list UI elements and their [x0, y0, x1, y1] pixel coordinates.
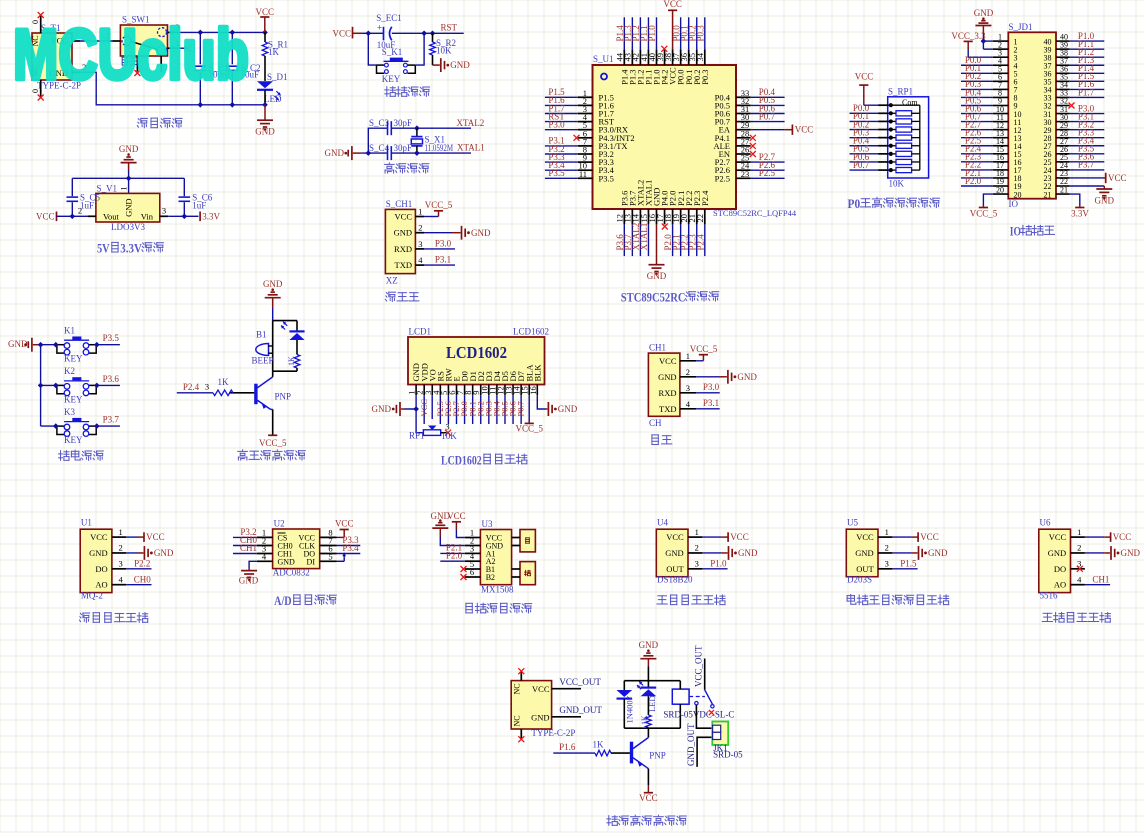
wire P3.1	[696, 408, 719, 410]
svg-text:GND_OUT: GND_OUT	[559, 705, 602, 715]
svg-text:U3: U3	[482, 519, 493, 529]
relay coil JK1	[672, 689, 689, 704]
wire P1.6	[553, 752, 595, 754]
svg-text:NC: NC	[513, 715, 522, 726]
title 串口	[652, 434, 658, 436]
svg-text:P1.5: P1.5	[900, 558, 917, 568]
svg-text:P2.0: P2.0	[965, 176, 982, 186]
wire DI join DO	[337, 560, 345, 562]
svg-text:K3: K3	[64, 407, 75, 417]
wire P0.1	[850, 120, 879, 122]
wire top rail	[72, 177, 184, 179]
title 声光报警电路	[242, 450, 244, 451]
wire P3.4	[545, 169, 578, 171]
wire P0.7	[961, 121, 993, 123]
svg-text:5516: 5516	[1040, 590, 1059, 600]
ground GND	[433, 64, 440, 66]
wire P3.2	[1070, 129, 1105, 131]
pin CH1.4	[415, 264, 424, 266]
svg-text:GND: GND	[928, 548, 948, 558]
wire P2.5	[961, 145, 993, 147]
svg-text:30pF: 30pF	[394, 143, 413, 153]
svg-text:P2.4: P2.4	[183, 382, 200, 392]
no-connect pin6	[461, 574, 467, 580]
svg-text:P2.4: P2.4	[700, 190, 710, 206]
svg-text:P3.7: P3.7	[103, 415, 120, 425]
svg-text:VCC: VCC	[663, 0, 682, 9]
capacitor S_C5 1uF	[71, 178, 73, 196]
svg-text:3: 3	[162, 206, 166, 216]
svg-text:P2.2: P2.2	[134, 558, 150, 568]
wire P1.4	[1070, 72, 1105, 74]
wire P0.2	[480, 395, 482, 424]
pin CH1.2	[680, 376, 696, 378]
capacitor S_C1 100nF	[199, 32, 201, 64]
title 复位电路	[386, 87, 388, 97]
svg-text:NC: NC	[513, 683, 522, 694]
wire P3.6	[1070, 161, 1105, 163]
wire GND net to bottom rail	[80, 72, 265, 105]
svg-text:5V: 5V	[97, 242, 110, 256]
switch S_SW1	[120, 25, 167, 56]
svg-text:AO: AO	[95, 580, 107, 590]
transistor Q2 PNP	[647, 728, 649, 737]
svg-text:VCC_3.3: VCC_3.3	[951, 31, 986, 41]
svg-text:VCC: VCC	[395, 212, 413, 222]
svg-text:2: 2	[1077, 543, 1081, 553]
wire P1.5	[1070, 80, 1105, 82]
wire P1.1	[1070, 48, 1105, 50]
wire P0.7	[520, 395, 522, 424]
wire EA to VCC	[751, 129, 785, 131]
wire P2.4	[177, 392, 213, 394]
wire P2.6	[751, 169, 785, 171]
connector JK1 SRD-05	[712, 722, 728, 746]
pin T1.2 GND	[72, 71, 80, 73]
svg-text:PNP: PNP	[649, 750, 666, 760]
svg-text:TXD: TXD	[659, 404, 676, 414]
svg-text:TYPE-C-2P: TYPE-C-2P	[531, 728, 575, 738]
wire P3.4	[337, 553, 361, 555]
diode D3 1N4007	[623, 681, 625, 690]
wire P2.7	[961, 129, 993, 131]
svg-text:VCC: VCC	[795, 125, 814, 135]
wire P3.3	[1070, 137, 1105, 139]
wire P3.1	[1070, 121, 1105, 123]
svg-text:VCC_OUT: VCC_OUT	[694, 645, 704, 687]
wire P0.6	[850, 161, 879, 163]
svg-text:10K: 10K	[889, 178, 905, 188]
wire P3.4	[1070, 145, 1105, 147]
no-connect	[750, 143, 756, 149]
wire	[368, 128, 387, 153]
wire XTAL1	[392, 152, 471, 154]
svg-text:VCC: VCC	[920, 532, 939, 542]
resistor element 2	[888, 120, 896, 122]
wire P0.0	[464, 395, 466, 424]
svg-text:ADC0832: ADC0832	[273, 568, 310, 578]
svg-text:3: 3	[885, 559, 889, 569]
pin RP1.6	[878, 145, 888, 147]
motor connector B	[520, 562, 535, 585]
wire P3.6	[96, 384, 120, 386]
wire P2.6	[447, 395, 449, 424]
svg-text:DI: DI	[307, 557, 316, 566]
power 3.3V pin21	[1070, 194, 1080, 205]
svg-text:11.0592M: 11.0592M	[425, 143, 454, 153]
svg-text:3: 3	[418, 239, 422, 249]
wire P3.3	[545, 161, 578, 163]
IC S_U1 STC89C52RC_LQFP44	[593, 65, 737, 209]
wire P0.0	[680, 17, 682, 49]
wire key right branch	[415, 33, 424, 65]
power VCC_5 / BLA	[528, 395, 530, 421]
wire P0.7	[751, 121, 785, 123]
svg-text:4: 4	[1077, 574, 1082, 584]
relay switch	[705, 690, 713, 705]
junction	[365, 30, 371, 36]
wire	[362, 32, 383, 34]
connector S_T1 TYPE-C-2P	[32, 33, 72, 80]
ground GND	[892, 552, 911, 554]
svg-text:DO: DO	[95, 564, 107, 574]
wire P1.3	[1070, 64, 1105, 66]
wire P2.6	[961, 137, 993, 139]
svg-text:1K: 1K	[287, 356, 296, 366]
wire P2.2	[688, 224, 690, 256]
pin T2 bottom no-connect	[520, 729, 522, 738]
wire P2.5	[439, 395, 441, 424]
svg-text:GND: GND	[255, 127, 275, 137]
power VCC pin1	[456, 530, 464, 538]
transistor Q1 PNP	[272, 371, 274, 377]
no-connect	[1077, 566, 1083, 572]
IC U1 MQ-2	[80, 529, 112, 592]
svg-text:1K: 1K	[640, 715, 649, 725]
svg-text:BLK: BLK	[532, 364, 542, 382]
wire	[41, 384, 57, 386]
svg-text:GND: GND	[665, 548, 683, 558]
svg-text:P3.5: P3.5	[103, 333, 120, 343]
junction	[126, 175, 132, 181]
svg-text:CH1: CH1	[649, 343, 666, 353]
title 按键电路	[60, 451, 62, 461]
resistor element 4	[888, 137, 896, 139]
ground GND pin22	[1070, 185, 1105, 187]
svg-text:VCC: VCC	[639, 793, 658, 803]
wire GND trunk	[40, 345, 42, 426]
wire P3.5	[96, 344, 120, 346]
wire P3.0	[696, 392, 719, 394]
ground GND left / pin1	[405, 395, 417, 409]
wire P2.1	[961, 177, 993, 179]
svg-text:SRD-05: SRD-05	[713, 750, 743, 760]
svg-text:GND: GND	[855, 548, 873, 558]
wire P0.5	[961, 105, 993, 107]
wire P1.5	[545, 96, 578, 98]
ground GND	[249, 561, 257, 568]
svg-text:VCC: VCC	[730, 532, 749, 542]
svg-text:P1.0: P1.0	[647, 25, 657, 42]
title	[1043, 612, 1052, 614]
wire P1.0	[656, 17, 658, 49]
ground GND pin2	[440, 537, 465, 546]
ground GND	[424, 232, 452, 234]
svg-text:P0.7: P0.7	[516, 401, 526, 416]
resistor 1K vertical	[296, 340, 298, 355]
svg-text:3.3V: 3.3V	[1071, 209, 1089, 219]
wire P3.3	[337, 545, 361, 547]
resistor S_R2 10K	[432, 33, 434, 42]
svg-text:VCC: VCC	[856, 532, 874, 542]
junction	[197, 102, 203, 108]
wire P2.7	[751, 161, 785, 163]
wire P3.0	[545, 129, 578, 131]
power VCC pin8	[337, 536, 341, 538]
power VCC_5	[424, 216, 439, 218]
wire	[361, 152, 387, 154]
svg-text:P3.1: P3.1	[703, 398, 719, 408]
pin V1.3 Vin	[160, 215, 168, 217]
LED D2	[296, 321, 298, 332]
svg-text:XZ: XZ	[386, 276, 398, 286]
svg-text:P2.5: P2.5	[759, 168, 776, 178]
IC U3 MX1508	[480, 530, 511, 585]
IC U6 5516	[1039, 529, 1071, 592]
IC U4 DS18B20	[656, 529, 688, 577]
resistor element 1	[888, 112, 896, 114]
wire P2.7	[456, 395, 458, 424]
svg-text:P3.7: P3.7	[1078, 160, 1095, 170]
svg-text:P0.3: P0.3	[700, 69, 710, 84]
wire contact to JK1	[696, 705, 712, 728]
wire P0.4	[961, 96, 993, 98]
wire P3.7	[96, 425, 120, 427]
junction	[69, 213, 75, 219]
wire P0.2	[961, 80, 993, 82]
ground GND	[640, 658, 656, 660]
svg-text:1: 1	[1077, 527, 1081, 537]
wire P1.6	[1070, 88, 1105, 90]
svg-text:IO: IO	[1009, 199, 1019, 209]
wire P3.1	[545, 145, 578, 147]
svg-text:20: 20	[1014, 190, 1022, 199]
wire XTAL2	[639, 224, 641, 256]
wire P3.2	[233, 536, 257, 538]
no-connect	[661, 46, 667, 52]
resistor element 3	[888, 129, 896, 131]
resistor network S_RP1 10K	[888, 97, 929, 178]
wire CH0	[233, 545, 257, 547]
wire P2.3	[696, 224, 698, 256]
wire P3.5	[1070, 153, 1105, 155]
svg-text:1uF: 1uF	[192, 200, 206, 210]
pin CH1.4	[680, 408, 696, 410]
ground GND top	[121, 162, 137, 164]
junction	[181, 213, 187, 219]
svg-text:GND: GND	[471, 228, 491, 238]
wire GND to pins 1-2	[982, 34, 984, 49]
svg-text:U4: U4	[657, 518, 668, 528]
wire P3.7	[1070, 169, 1105, 171]
LCD module LCD1 LCD1602	[408, 337, 545, 385]
pin RP1.5	[878, 137, 888, 139]
svg-text:DO: DO	[1054, 564, 1066, 574]
ground GND	[702, 552, 721, 554]
title 继电器控制电路	[608, 816, 610, 826]
svg-text:VCC_5: VCC_5	[970, 209, 998, 219]
svg-text:Vin: Vin	[141, 212, 154, 222]
svg-text:2: 2	[885, 543, 889, 553]
svg-text:LCD1: LCD1	[409, 326, 432, 336]
svg-text:CH1: CH1	[240, 543, 257, 553]
svg-text:S_JD1: S_JD1	[1009, 22, 1033, 32]
wire	[272, 307, 274, 320]
svg-text:2: 2	[686, 367, 690, 377]
svg-text:S_U1: S_U1	[593, 54, 614, 64]
svg-text:XTAL1: XTAL1	[457, 143, 485, 153]
svg-text:KEY: KEY	[64, 435, 83, 445]
svg-text:GND: GND	[239, 575, 259, 585]
svg-text:1: 1	[418, 207, 422, 217]
svg-text:3: 3	[205, 382, 209, 392]
svg-text:TXD: TXD	[395, 260, 412, 270]
wire P1.3	[631, 17, 633, 49]
wire P1.2	[639, 17, 641, 49]
svg-text:LED: LED	[264, 94, 282, 104]
wire P2.0	[961, 185, 993, 187]
svg-text:P3.1: P3.1	[435, 255, 451, 265]
wire VCC	[423, 395, 425, 424]
wire	[168, 215, 184, 217]
svg-text:GND: GND	[1048, 548, 1066, 558]
wire top rail	[273, 320, 297, 322]
pin T2 GND / net GND_OUT	[552, 716, 581, 718]
svg-text:K2: K2	[64, 366, 75, 376]
junction	[197, 30, 203, 36]
svg-text:XTAL1: XTAL1	[639, 223, 649, 251]
wire P0.3	[704, 17, 706, 49]
resistor 1K	[647, 696, 649, 715]
wire P2.0	[672, 224, 674, 256]
svg-text:3: 3	[686, 383, 690, 393]
svg-text:P1.0: P1.0	[710, 558, 727, 568]
pin RP1.1	[878, 104, 888, 106]
wire	[41, 425, 57, 427]
ground GND	[656, 224, 658, 264]
svg-text:SRD-05VDC-SL-C: SRD-05VDC-SL-C	[663, 710, 734, 720]
svg-text:3: 3	[445, 421, 449, 431]
svg-text:P3.0: P3.0	[435, 238, 452, 248]
wire XTAL2	[392, 127, 471, 129]
resistor S_R1 1K	[264, 32, 266, 42]
power VCC	[1085, 536, 1104, 538]
svg-text:GND: GND	[974, 8, 994, 18]
resistor 1K base	[229, 392, 254, 394]
svg-text:IO: IO	[1010, 225, 1021, 239]
no-connect	[750, 151, 756, 157]
svg-text:STC89C52RC_LQFP44: STC89C52RC_LQFP44	[713, 208, 797, 218]
wire P1.6	[545, 104, 578, 106]
svg-text:U6: U6	[1040, 518, 1051, 528]
svg-text:3: 3	[118, 559, 122, 569]
wire P3.6	[623, 224, 625, 256]
svg-text:GND: GND	[431, 511, 451, 521]
svg-text:11: 11	[579, 169, 587, 179]
crystal S_X1 11.0592M	[416, 128, 418, 136]
svg-text:RP1: RP1	[409, 431, 425, 441]
wire	[72, 215, 87, 217]
wire	[41, 344, 57, 346]
svg-text:VCC: VCC	[1108, 173, 1127, 183]
wire P0.4	[496, 395, 498, 424]
svg-text:VCC_5: VCC_5	[690, 344, 718, 354]
svg-text:VCC_5: VCC_5	[515, 424, 543, 434]
svg-text:1N4007: 1N4007	[625, 696, 635, 723]
svg-text:MQ-2: MQ-2	[81, 590, 103, 600]
svg-text:GND: GND	[531, 713, 549, 723]
svg-text:34: 34	[695, 52, 705, 61]
ground GND	[696, 376, 719, 378]
svg-text:3: 3	[695, 559, 699, 569]
pin T1.1 VCC	[72, 40, 80, 42]
pin RP1.2	[878, 112, 888, 114]
svg-text:U2: U2	[274, 519, 285, 529]
wire P1.0	[702, 568, 727, 570]
power VCC_5	[696, 360, 703, 362]
power 3.3V	[184, 215, 198, 217]
wire VCC rail top	[179, 31, 265, 33]
wire P0.3	[488, 395, 490, 424]
svg-text:Vout: Vout	[103, 212, 120, 222]
svg-text:GND: GND	[1121, 548, 1141, 558]
pin CH1.2	[415, 232, 424, 234]
svg-text:CH: CH	[649, 418, 662, 428]
wire P1.1	[647, 17, 649, 49]
svg-text:P3.0: P3.0	[703, 382, 720, 392]
svg-text:GND: GND	[263, 279, 283, 289]
connector CH1 serial	[648, 353, 680, 416]
wire P1.0	[1070, 40, 1105, 42]
svg-text:PNP: PNP	[275, 391, 292, 401]
svg-text:RXD: RXD	[394, 244, 412, 254]
wire top rail	[624, 680, 680, 682]
svg-text:GND: GND	[1095, 196, 1115, 206]
wire P3.2	[545, 153, 578, 155]
junction	[421, 30, 427, 36]
pin RP1.7	[878, 153, 888, 155]
ground GND	[345, 152, 347, 154]
resistor element 7	[888, 161, 896, 163]
wire	[864, 104, 878, 106]
svg-text:10K: 10K	[441, 431, 457, 441]
svg-text:1: 1	[885, 527, 889, 537]
svg-text:BEEP: BEEP	[252, 355, 274, 365]
svg-text:KEY: KEY	[64, 394, 83, 404]
wire P0.6	[751, 113, 785, 115]
no-connect	[750, 135, 756, 141]
power VCC	[702, 536, 721, 538]
svg-text:P0.7: P0.7	[853, 160, 870, 170]
wire P3.1	[424, 264, 455, 266]
svg-text:GND: GND	[394, 228, 412, 238]
svg-text:OUT: OUT	[666, 564, 684, 574]
title 晶振电路	[388, 163, 390, 164]
svg-text:GND: GND	[278, 557, 296, 566]
wire P0.6	[961, 113, 993, 115]
resistor 1K base	[611, 752, 630, 754]
junction	[414, 125, 420, 131]
